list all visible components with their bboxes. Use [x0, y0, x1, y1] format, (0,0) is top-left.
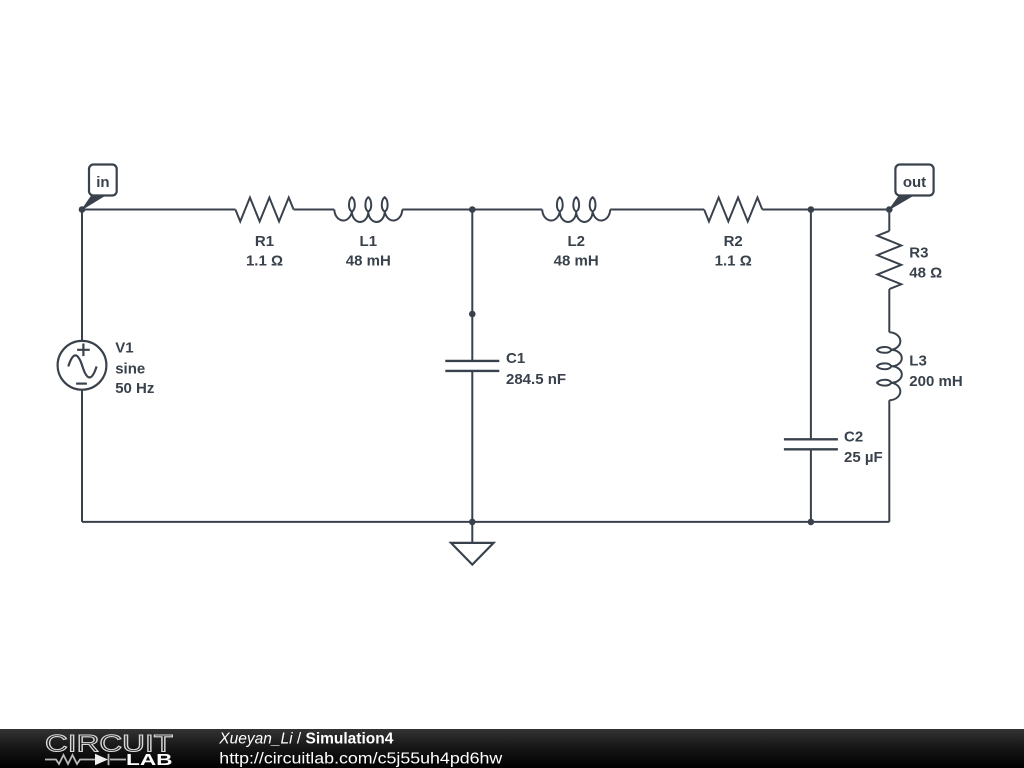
svg-text:200 mH: 200 mH [909, 373, 962, 390]
wire L3 to bottom rail [888, 400, 890, 522]
svg-text:C2: C2 [844, 429, 863, 446]
wire L2 to R2 [610, 209, 704, 211]
svg-text:V1: V1 [115, 340, 133, 357]
svg-text:http://circuitlab.com/c5j55uh4: http://circuitlab.com/c5j55uh4pd6hw [219, 750, 503, 767]
svg-text:R1: R1 [255, 233, 274, 250]
junction top middle node [469, 206, 476, 213]
junction C2 top node [808, 206, 815, 213]
junction out node [886, 206, 893, 213]
svg-text:sine: sine [115, 361, 145, 378]
capacitor C1 [445, 361, 499, 371]
wire middle branch upper: top rail to C1 [471, 210, 473, 361]
wire right branch: out node to R3 [888, 210, 890, 231]
inductor L3 [877, 332, 902, 400]
capacitor C2 [784, 439, 838, 449]
junction in node [79, 206, 86, 213]
wire C2 branch upper: top rail to C2 [810, 210, 812, 440]
svg-text:50 Hz: 50 Hz [115, 380, 154, 397]
svg-text:25 µF: 25 µF [844, 449, 883, 466]
inductor L1 [334, 197, 402, 222]
resistor R3 [877, 231, 901, 289]
svg-text:in: in [96, 174, 109, 191]
ground [451, 522, 494, 565]
svg-text:out: out [903, 174, 926, 191]
voltage source V1 [58, 341, 107, 390]
wire left vertical upper: in node to V1 [81, 210, 83, 341]
svg-text:1.1 Ω: 1.1 Ω [715, 253, 752, 270]
svg-text:L1: L1 [360, 233, 378, 250]
net flag in [82, 165, 117, 210]
svg-text:1.1 Ω: 1.1 Ω [246, 252, 283, 269]
wire top left: in node to R1 [82, 209, 235, 211]
wire middle branch lower: C1 to bottom rail [471, 371, 473, 522]
svg-text:Xueyan_Li / Simulation4: Xueyan_Li / Simulation4 [218, 731, 393, 748]
svg-text:L2: L2 [567, 233, 585, 250]
wire C2 branch lower: C2 to bottom rail [810, 449, 812, 522]
net flag out [889, 165, 933, 210]
junction ground node [469, 519, 476, 526]
resistor R2 [704, 198, 762, 222]
wire R3 to L3 [888, 289, 890, 332]
wire R2 to out node [762, 209, 889, 211]
svg-text:48 Ω: 48 Ω [909, 265, 942, 282]
wire R1 to L1 [294, 209, 335, 211]
junction above C1 [469, 311, 476, 318]
svg-text:R2: R2 [724, 233, 743, 250]
wire L1 to L2 through node [402, 209, 542, 211]
resistor R1 [235, 198, 293, 222]
svg-text:R3: R3 [909, 245, 928, 262]
svg-text:48 mH: 48 mH [346, 252, 391, 269]
wire bottom rail [82, 521, 889, 523]
svg-text:284.5 nF: 284.5 nF [506, 371, 566, 388]
wire left vertical lower: V1 to bottom rail [81, 390, 83, 522]
svg-text:C1: C1 [506, 350, 525, 367]
svg-text:48 mH: 48 mH [554, 253, 599, 270]
CircuitLab logo resistor-diode glyph [45, 754, 126, 765]
junction C2 bottom node [808, 519, 815, 526]
svg-text:L3: L3 [909, 352, 927, 369]
inductor L2 [542, 197, 610, 222]
svg-text:LAB: LAB [126, 752, 173, 768]
